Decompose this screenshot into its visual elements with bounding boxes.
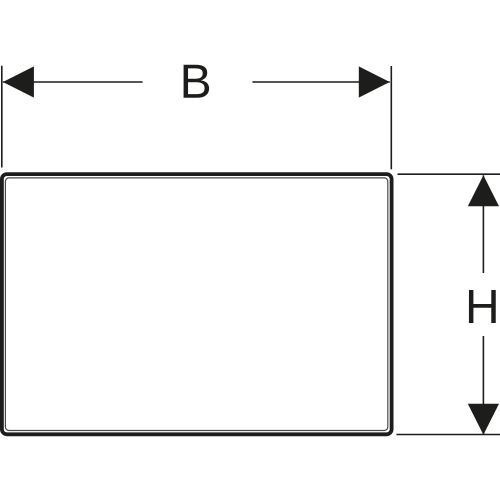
svg-text:H: H [465,281,500,334]
arrowhead B right [359,66,390,97]
extension line bottom of dimension H [396,434,500,436]
extension line top of dimension H [398,173,500,175]
arrowhead H bottom [468,404,499,435]
extension line right of dimension B [390,66,392,169]
dimension line H bottom segment [482,336,484,435]
arrowhead B left [3,66,34,97]
arrowhead H top [468,175,499,206]
dimension line B right segment [252,81,389,83]
dimension line H top segment [482,175,484,273]
panel outer outline [2,174,392,434]
panel inner edge line [5,178,387,431]
svg-text:B: B [180,56,212,109]
dimension line B left segment [3,81,143,83]
extension line left of dimension B [1,66,3,168]
